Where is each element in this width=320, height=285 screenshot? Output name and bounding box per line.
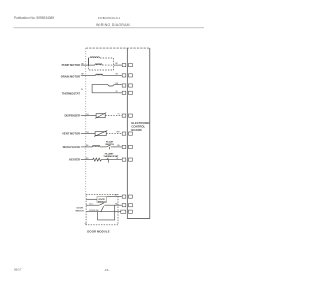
svg-text:Publication No: 5995534089: Publication No: 5995534089 [14, 16, 54, 20]
pump motor start winding coil (dashed top) [90, 57, 100, 58]
svg-text:N.O.: N.O. [89, 203, 93, 205]
thermal protector tick [88, 58, 90, 66]
svg-text:VENT MOTOR: VENT MOTOR [62, 132, 80, 136]
pins thermostat top row [122, 84, 126, 87]
wire valve lead [81, 146, 93, 148]
wire door switch to board [107, 196, 122, 198]
door N.O. switch blade [99, 203, 103, 205]
wire heater lead [81, 159, 93, 161]
wire N.O. switch line [86, 204, 99, 206]
wire vent lead [81, 133, 95, 135]
pins valve row [122, 145, 126, 148]
svg-text:DISPENSER: DISPENSER [64, 114, 80, 118]
svg-text:W: W [116, 158, 118, 160]
pins door switch row [122, 195, 126, 198]
electronic control board label [131, 121, 149, 132]
svg-text:DOOR: DOOR [77, 208, 84, 210]
svg-text:BOARD: BOARD [131, 128, 141, 132]
internal loop wire [98, 205, 115, 220]
svg-text:W: W [85, 223, 87, 225]
wire drain to board [103, 74, 122, 76]
wire valve to float switch [100, 146, 106, 148]
svg-text:W: W [81, 89, 83, 91]
electronic control board U1 box [127, 48, 150, 218]
pins dispenser row [122, 114, 126, 117]
door switch inner label [98, 199, 106, 203]
pins drain row [122, 74, 126, 77]
pins heater row [122, 158, 126, 161]
wire drain motor lead [81, 74, 96, 76]
svg-text:FLOAT: FLOAT [106, 140, 114, 143]
wire pump to board [114, 64, 122, 66]
pump motor dashed enclosure [89, 58, 114, 70]
svg-text:WH: WH [116, 132, 120, 134]
wire switch to board (middle) [104, 204, 122, 206]
svg-text:SWITCH: SWITCH [75, 210, 84, 212]
wire module left to door switch box [86, 198, 97, 200]
door module box [86, 194, 118, 225]
float switch label [105, 140, 114, 146]
water valve solenoid coil [92, 146, 99, 147]
svg-text:SWITCH: SWITCH [98, 202, 106, 204]
svg-text:DOOR MODULE: DOOR MODULE [87, 229, 109, 233]
svg-text:MODE SW: MODE SW [89, 210, 98, 212]
wire mode switch line [86, 211, 122, 213]
svg-text:-15-: -15- [104, 268, 109, 272]
boundary dashed line (tub/console) [85, 49, 87, 195]
wire pump motor lead [81, 64, 95, 66]
pump motor main winding coil [95, 64, 102, 65]
svg-text:W: W [116, 91, 118, 93]
pins door middle row [122, 204, 126, 207]
svg-text:WASH VALVE: WASH VALVE [63, 145, 81, 149]
pins pump row [122, 64, 126, 67]
float switch blade [106, 145, 110, 150]
svg-text:PUMP MOTOR: PUMP MOTOR [62, 63, 80, 67]
svg-text:HI-LIMIT: HI-LIMIT [105, 153, 114, 155]
door switch inner box [97, 197, 107, 203]
pins door bottom row [121, 210, 126, 213]
drain motor winding coil [96, 74, 103, 75]
dispenser wax motor (slashed box) [96, 114, 105, 118]
wire float switch to board [111, 146, 122, 148]
pins vent row [122, 132, 126, 135]
svg-text:HEATER: HEATER [69, 158, 80, 162]
svg-text:06/17: 06/17 [14, 267, 22, 271]
svg-text:YL: YL [118, 114, 120, 116]
svg-text:FDB2094GC1: FDB2094GC1 [98, 16, 120, 20]
hi-limit thermostat symbol [107, 158, 109, 163]
thermostat loop with sensing disc [92, 85, 122, 93]
svg-text:WIRING DIAGRAM: WIRING DIAGRAM [96, 23, 130, 27]
door latch label [75, 208, 84, 213]
heater element resistor [93, 158, 102, 161]
wire vent to board [106, 133, 122, 135]
wire dispenser lead [81, 115, 96, 117]
vent wax motor (slashed box) [95, 132, 106, 136]
door contact diagonal [101, 206, 104, 212]
hi-limit thermostat label [103, 153, 119, 158]
svg-text:DRAIN MOTOR: DRAIN MOTOR [61, 75, 80, 79]
header rule [14, 27, 205, 29]
svg-text:THERMOSTAT: THERMOSTAT [62, 91, 81, 95]
connector pin pairs at control board edge [121, 64, 133, 214]
wire pump winding dashed return [102, 64, 114, 66]
wire heater to hi-limit [101, 159, 122, 161]
pins thermostat bottom row [122, 91, 126, 94]
wire top bus y=48 [86, 47, 150, 49]
wire dispenser to board [105, 115, 122, 117]
